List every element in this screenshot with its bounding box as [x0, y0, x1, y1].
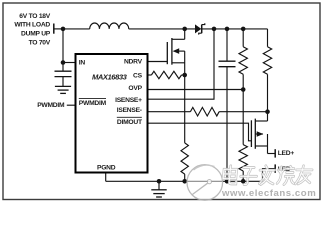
inductor L1: [90, 23, 129, 29]
node IN/cap junction: [61, 60, 66, 65]
wire input to node: [54, 28, 63, 30]
wire VIN node down to cap node: [62, 29, 64, 63]
svg-text:TO 70V: TO 70V: [29, 40, 51, 47]
wire DIMOUT to gate: [148, 123, 252, 141]
svg-text:PWMDIM: PWMDIM: [37, 102, 65, 109]
node bus / output cap: [225, 179, 230, 184]
wire PWMDIM input: [67, 104, 76, 106]
svg-text:PWMDIM: PWMDIM: [79, 100, 107, 107]
resistor R4 CS series: [148, 71, 185, 78]
resistor R2 OVP divider bottom: [239, 90, 247, 182]
wire ISENSE+ riser: [148, 29, 215, 99]
watermark: [187, 165, 316, 201]
resistor R5 switch current sense: [181, 75, 188, 181]
svg-text:OVP: OVP: [128, 85, 142, 92]
node rail cap tap: [225, 27, 230, 32]
node switch (drain tap): [182, 27, 187, 32]
svg-text:CS: CS: [133, 72, 143, 79]
wire diode cathode rail: [202, 28, 268, 30]
node CS: [182, 73, 187, 78]
pin PWMDIM: [79, 99, 107, 107]
transistor Q1 NMOS: [148, 29, 185, 75]
wire OVP pin to divider node: [148, 89, 244, 91]
node rail OVP divider tap: [241, 27, 246, 32]
node OVP divider tap: [241, 87, 246, 92]
svg-text:ISENSE-: ISENSE-: [117, 107, 142, 114]
resistor R6 ISENSE- series: [148, 107, 268, 116]
svg-text:LED+: LED+: [278, 150, 295, 157]
svg-text:DIMOUT: DIMOUT: [117, 119, 143, 126]
transistor Q2 PMOS: [251, 112, 267, 154]
svg-text:6V TO 18V: 6V TO 18V: [19, 13, 51, 20]
node ground bus at PGND ground: [157, 179, 162, 184]
terminal LED+: [274, 149, 276, 157]
wire inductor to diode anode: [129, 28, 195, 30]
svg-text:IN: IN: [79, 60, 86, 67]
resistor R1 OVP divider top: [239, 29, 247, 90]
svg-text:WITH LOAD: WITH LOAD: [14, 21, 50, 28]
wire PGND stub: [105, 173, 107, 182]
pin DIMOUT: [117, 117, 143, 126]
ground power: [151, 181, 166, 197]
input terminal tick: [53, 24, 55, 34]
node input VIN: [61, 27, 66, 32]
node bus / CS sense: [182, 179, 187, 184]
diode D1 schottky: [195, 23, 205, 34]
wire node to IN pin: [63, 62, 76, 64]
node ISENSE- / PMOS: [265, 109, 270, 114]
svg-text:ISENSE+: ISENSE+: [115, 97, 142, 104]
svg-text:DUMP UP: DUMP UP: [21, 30, 51, 37]
svg-text:MAX16833: MAX16833: [92, 73, 128, 82]
wire ground bus: [106, 180, 263, 182]
svg-text:NDRV: NDRV: [124, 59, 143, 66]
IC U1 MAX16833: [76, 54, 148, 173]
node rail ISENSE+ tap: [212, 27, 217, 32]
capacitor C1 input: [55, 63, 72, 87]
capacitor C2 output: [219, 29, 236, 181]
wire VIN node to inductor: [63, 28, 90, 30]
node VIN supply label: [14, 13, 50, 47]
wire LED+ lead: [268, 153, 276, 155]
wire LED- return: [263, 169, 276, 182]
svg-text:PGND: PGND: [97, 165, 116, 172]
node bus / OVP divider: [241, 179, 246, 184]
svg-text:www.elecfans.com: www.elecfans.com: [221, 188, 316, 199]
terminal LED-: [274, 164, 276, 172]
ground input: [55, 86, 71, 93]
resistor R3 LED current sense: [263, 29, 271, 112]
